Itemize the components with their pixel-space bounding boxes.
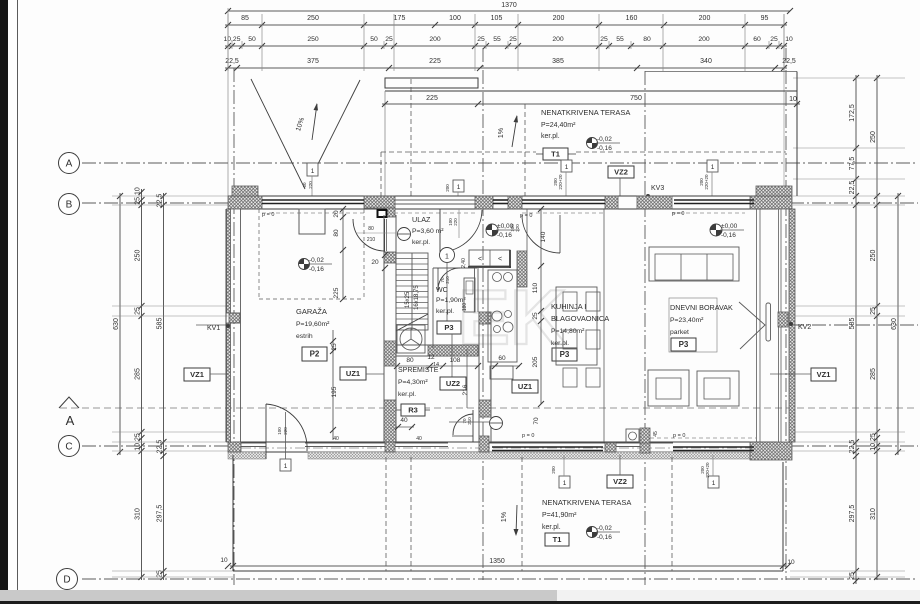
bottom wall pier 2 — [385, 436, 395, 452]
ridge marker box — [307, 163, 318, 176]
svg-text:parket: parket — [670, 329, 689, 336]
svg-text:200: 200 — [445, 184, 450, 192]
small window top — [493, 199, 508, 201]
vertical grid line 4 — [785, 48, 787, 580]
overall dimension 1370 — [228, 10, 790, 12]
left lower chain 310 — [141, 448, 143, 580]
grid line A horizontal — [82, 162, 918, 164]
axis line KV horizontal left — [196, 324, 228, 326]
svg-text:77,5: 77,5 — [849, 157, 856, 171]
svg-text:±0,00: ±0,00 — [721, 223, 738, 230]
wall garage-hall — [383, 215, 385, 442]
kitchen door arc — [522, 215, 560, 253]
roof slope V line left — [251, 79, 305, 189]
top wall pier KV3 — [637, 196, 672, 209]
right extension lines — [793, 77, 905, 79]
canopy rectangle — [385, 78, 478, 88]
svg-text:-0,02: -0,02 — [597, 136, 612, 143]
lower terrace elevation marker — [587, 527, 598, 538]
svg-text:285: 285 — [870, 368, 877, 380]
svg-text:GARAŽA: GARAŽA — [296, 307, 327, 316]
vertical grid line 2 — [482, 48, 484, 580]
entry window top — [394, 199, 475, 201]
dashed projection line x411 — [410, 79, 412, 196]
svg-text:220: 220 — [283, 427, 288, 435]
bottom marker leader — [285, 412, 287, 459]
bottom wall pier corner left — [228, 442, 241, 452]
svg-text:55: 55 — [616, 36, 624, 43]
svg-text:205: 205 — [532, 356, 539, 367]
svg-text:P=3,60 m²: P=3,60 m² — [412, 228, 444, 235]
svg-text:ker.pl.: ker.pl. — [412, 239, 430, 246]
svg-text:A: A — [66, 413, 75, 428]
svg-text:A: A — [66, 159, 73, 170]
right wall window KV2 — [778, 312, 788, 327]
svg-text:1: 1 — [311, 168, 315, 175]
svg-text:50: 50 — [370, 36, 378, 43]
grid line D horizontal — [82, 578, 918, 580]
roof slope arrow 10% — [312, 104, 317, 140]
svg-text:ker.pl.: ker.pl. — [436, 308, 454, 315]
svg-text:110: 110 — [532, 282, 539, 293]
svg-text:310: 310 — [870, 508, 877, 520]
svg-text:P=19,60m²: P=19,60m² — [296, 321, 330, 328]
svg-text:385: 385 — [552, 58, 564, 65]
top dimension row 2 — [225, 45, 787, 47]
svg-text:<: < — [478, 256, 482, 263]
window marker above entry — [453, 180, 464, 192]
svg-text:25: 25 — [477, 36, 485, 43]
lintel dashed lines — [262, 212, 364, 214]
svg-text:210: 210 — [367, 237, 376, 243]
svg-text:60: 60 — [302, 182, 307, 188]
svg-text:25: 25 — [385, 36, 393, 43]
svg-text:25: 25 — [870, 307, 877, 315]
wall ULAZ-east — [526, 209, 528, 251]
svg-text:225: 225 — [429, 58, 441, 65]
sliding door leaf — [766, 303, 771, 341]
right lower chain 297,5 — [855, 453, 857, 584]
kitchen dim chain vertical — [540, 209, 542, 404]
svg-text:KV3: KV3 — [651, 185, 664, 192]
svg-text:172,5: 172,5 — [849, 104, 856, 122]
svg-text:T1: T1 — [553, 535, 562, 544]
kitchen counter — [488, 270, 517, 362]
grid bubble D — [57, 569, 78, 590]
WC room walls — [433, 267, 477, 269]
grid bubble A — [59, 153, 80, 174]
svg-text:R3: R3 — [408, 406, 418, 415]
svg-text:14: 14 — [433, 362, 439, 368]
svg-text:200: 200 — [699, 15, 711, 22]
grid line C horizontal — [82, 445, 233, 447]
entry symbol circle — [398, 228, 411, 241]
upper terrace elevation marker — [587, 138, 598, 149]
svg-text:630: 630 — [891, 318, 898, 330]
svg-text:80: 80 — [406, 357, 414, 364]
svg-text:55: 55 — [493, 36, 501, 43]
bottom exterior hatch band — [228, 452, 266, 459]
svg-text:250: 250 — [135, 250, 142, 262]
svg-text:250: 250 — [870, 250, 877, 262]
svg-text:15x25: 15x25 — [405, 291, 411, 308]
window bottom middle glazing — [492, 446, 603, 448]
kitchen hob — [492, 311, 502, 321]
svg-text:297,5: 297,5 — [849, 505, 856, 523]
roof overhang left edge — [384, 91, 386, 196]
svg-text:200: 200 — [553, 15, 565, 22]
staircase cut line — [396, 314, 428, 331]
VZ2 label top — [608, 166, 634, 178]
left dim chain 250/25/285 — [141, 189, 143, 449]
armchair 1 — [648, 370, 689, 406]
svg-text:216: 216 — [462, 384, 469, 395]
svg-text:50: 50 — [248, 36, 256, 43]
corridor door arc — [472, 410, 474, 442]
svg-text:25: 25 — [849, 572, 856, 580]
svg-text:1: 1 — [563, 480, 567, 487]
left lower chain 297,5 — [163, 453, 165, 580]
sofa — [649, 247, 739, 281]
svg-text:-0,16: -0,16 — [309, 266, 324, 273]
garage dashed ceiling outline — [258, 209, 260, 299]
svg-text:25: 25 — [770, 36, 778, 43]
svg-text:-0,02: -0,02 — [309, 257, 324, 264]
svg-text:-0,16: -0,16 — [597, 145, 612, 152]
svg-text:20: 20 — [371, 259, 379, 266]
svg-text:340: 340 — [700, 58, 712, 65]
svg-text:20: 20 — [333, 210, 340, 218]
axis line KV horizontal right — [790, 324, 918, 326]
washing machine — [397, 325, 425, 353]
label VZ1 right — [811, 368, 836, 381]
svg-text:40: 40 — [416, 436, 422, 442]
svg-text:VZ1: VZ1 — [817, 370, 831, 379]
wardrobe — [469, 250, 510, 266]
svg-text:-0,16: -0,16 — [721, 232, 736, 239]
window marker kitchen top — [561, 160, 572, 172]
svg-text:22,5: 22,5 — [849, 181, 856, 195]
spremiste floor label R3 — [396, 409, 401, 411]
svg-text:P2: P2 — [310, 350, 320, 359]
svg-text:25: 25 — [331, 343, 338, 351]
right lower chain 310 — [876, 448, 878, 580]
svg-text:KV2: KV2 — [798, 324, 811, 331]
svg-text:220: 220 — [453, 218, 458, 226]
svg-text:200: 200 — [552, 36, 564, 43]
svg-text:12: 12 — [427, 354, 435, 361]
svg-text:40: 40 — [333, 436, 339, 442]
top wall pier corner left — [228, 196, 262, 209]
svg-text:160: 160 — [626, 15, 638, 22]
upper terrace floor label T1 — [536, 153, 543, 155]
svg-text:p = 0: p = 0 — [672, 211, 684, 217]
bottom wall pier 3 — [479, 436, 489, 452]
svg-text:200: 200 — [551, 466, 556, 474]
svg-text:250: 250 — [870, 131, 877, 143]
right exterior wall hatch strip — [789, 209, 795, 442]
dining table — [556, 287, 597, 365]
watermark letters — [458, 273, 566, 361]
kitchen base fixture — [490, 366, 513, 379]
section line A-A horizontal — [60, 407, 918, 409]
svg-text:P=41,90m²: P=41,90m² — [542, 512, 577, 519]
svg-text:60: 60 — [498, 355, 506, 362]
garage window top — [262, 199, 364, 201]
svg-text:P3: P3 — [560, 350, 570, 359]
left wall window KV1 — [229, 313, 240, 323]
left exterior wall — [225, 209, 227, 442]
svg-text:VZ2: VZ2 — [613, 477, 627, 486]
svg-text:108: 108 — [450, 357, 461, 364]
svg-text:KV1: KV1 — [207, 325, 220, 332]
svg-text:B: B — [66, 200, 73, 211]
VZ2 label bottom — [607, 475, 633, 488]
svg-text:25: 25 — [532, 312, 539, 320]
top wall pier 5 — [605, 196, 618, 209]
svg-text:1%: 1% — [498, 128, 505, 138]
terrace dashed boundary — [381, 151, 536, 153]
svg-text:-0,02: -0,02 — [597, 525, 612, 532]
svg-text:250: 250 — [307, 36, 319, 43]
label VZ1 left — [184, 368, 210, 381]
svg-text:220+20: 220+20 — [704, 174, 709, 190]
svg-text:175: 175 — [394, 15, 406, 22]
svg-text:630: 630 — [113, 318, 120, 330]
garage bottom door — [265, 404, 267, 459]
svg-text:220: 220 — [515, 224, 520, 232]
dashed projection line x525 — [524, 104, 526, 196]
window marker garage bottom — [280, 459, 291, 471]
svg-text:750: 750 — [630, 95, 642, 102]
garage elevation marker — [299, 259, 310, 270]
top extension lines — [227, 14, 229, 71]
svg-text:585: 585 — [157, 318, 164, 330]
left dim chain 630 — [119, 193, 121, 455]
svg-text:140: 140 — [540, 231, 547, 242]
svg-text:195: 195 — [331, 386, 338, 397]
svg-text:C: C — [65, 442, 72, 453]
svg-text:310: 310 — [135, 508, 142, 520]
kitchen sink — [493, 273, 502, 282]
top dimension row 3 — [225, 67, 787, 69]
top wall pier 2 — [364, 196, 395, 208]
svg-text:10: 10 — [787, 559, 795, 566]
entry door arc — [439, 209, 441, 252]
left extension lines — [112, 195, 228, 197]
label UZ1 left — [340, 367, 366, 380]
bottom wall pier 5 — [640, 428, 650, 453]
svg-text:2,40: 2,40 — [461, 258, 467, 268]
living window bottom — [673, 446, 754, 448]
top dimension row 1 — [225, 24, 787, 26]
svg-text:40: 40 — [400, 417, 408, 424]
svg-text:p = 0: p = 0 — [262, 212, 274, 218]
svg-text:70: 70 — [533, 417, 540, 425]
svg-text:ker.pl.: ker.pl. — [398, 391, 416, 398]
terrace dim 225/750 — [382, 103, 800, 105]
svg-text:225: 225 — [333, 287, 340, 298]
svg-text:<: < — [498, 256, 502, 263]
svg-text:-0,16: -0,16 — [597, 534, 612, 541]
living floor label P3 — [671, 338, 696, 351]
svg-text:210: 210 — [445, 276, 450, 284]
svg-text:1370: 1370 — [501, 2, 517, 9]
svg-text:100: 100 — [277, 427, 282, 435]
svg-text:210: 210 — [467, 417, 472, 425]
roof slope V line right — [318, 80, 360, 164]
svg-text:10: 10 — [785, 36, 793, 43]
svg-text:1350: 1350 — [489, 558, 505, 565]
svg-text:ker.pl.: ker.pl. — [551, 340, 569, 347]
garage floor label P2 — [302, 347, 327, 361]
roof upper edge line — [645, 71, 797, 73]
terrace slope arrow 1% — [512, 116, 517, 147]
svg-text:95: 95 — [761, 15, 769, 22]
armchair 2 — [697, 371, 739, 406]
wall entry-kitchen pier — [517, 251, 527, 287]
svg-text:WC: WC — [436, 287, 448, 294]
svg-text:D: D — [63, 575, 70, 586]
left black border strip — [0, 0, 8, 592]
grid bubble B — [59, 194, 80, 215]
middle bottom wall lines — [395, 442, 448, 444]
svg-text:estrih: estrih — [296, 333, 313, 340]
svg-text:T1: T1 — [551, 150, 560, 159]
flooring divider line — [603, 209, 605, 442]
svg-text:297,5: 297,5 — [157, 505, 164, 523]
svg-text:NENATKRIVENA TERASA: NENATKRIVENA TERASA — [542, 498, 631, 507]
svg-text:1: 1 — [284, 463, 288, 470]
svg-text:80: 80 — [368, 226, 374, 232]
top wall pier 4 — [508, 196, 522, 209]
svg-text:80: 80 — [333, 229, 340, 237]
svg-text:-0,16: -0,16 — [497, 232, 512, 239]
section marker A left — [59, 397, 79, 408]
svg-text:BLAGOVAONICA: BLAGOVAONICA — [551, 314, 609, 323]
bottom gray band — [0, 590, 557, 601]
garage dim chain — [342, 209, 344, 299]
bottom exterior wall — [233, 451, 790, 453]
lower terrace bottom edge — [233, 570, 783, 572]
projection dashed lines below building — [385, 457, 387, 571]
left dim chain 585 — [163, 193, 165, 454]
svg-text:85: 85 — [241, 15, 249, 22]
kitchen floor label P3 — [552, 348, 577, 361]
right dim chain 172,5/77,5 — [855, 75, 857, 454]
svg-text:1: 1 — [445, 254, 449, 261]
wall corridor-kitchen vertical — [478, 312, 480, 442]
svg-text:P=4,30m²: P=4,30m² — [398, 379, 428, 386]
terrace door direction triangle — [739, 302, 765, 349]
grid line B horizontal — [82, 202, 228, 204]
svg-text:VZ2: VZ2 — [614, 168, 628, 177]
svg-text:UZ2: UZ2 — [446, 379, 460, 388]
lower terrace dim 1350 — [230, 565, 786, 567]
svg-text:22,5: 22,5 — [225, 58, 239, 65]
lower terrace right edge — [782, 462, 784, 571]
floor drain symbol — [449, 421, 489, 423]
top wall pier 3 — [475, 196, 493, 209]
right glass facade outer pair — [778, 209, 780, 442]
svg-text:375: 375 — [307, 58, 319, 65]
svg-text:100: 100 — [449, 15, 461, 22]
window marker living top — [707, 160, 718, 172]
vertical grid line 3 — [644, 71, 646, 585]
svg-text:80: 80 — [643, 36, 651, 43]
svg-text:180: 180 — [462, 303, 468, 312]
svg-text:ker.pl.: ker.pl. — [542, 524, 561, 531]
wall hall-spremiste horizontal — [396, 344, 478, 346]
window marker corridor bottom — [559, 476, 570, 488]
svg-text:1: 1 — [565, 164, 569, 171]
svg-text:P3: P3 — [444, 323, 453, 332]
right dim chain 630 — [897, 193, 899, 455]
lower terrace slope arrow 1% — [516, 505, 517, 534]
svg-text:285: 285 — [135, 368, 142, 380]
svg-text:DNEVNI BORAVAK: DNEVNI BORAVAK — [670, 303, 733, 312]
svg-text:1: 1 — [457, 184, 461, 191]
label UZ2 — [440, 377, 466, 390]
top wall pier corner right — [750, 196, 792, 209]
bottom wall axis dashes — [241, 447, 777, 449]
label UZ1 right — [512, 380, 538, 393]
svg-text:1: 1 — [711, 164, 715, 171]
kitchen window top — [522, 199, 605, 201]
svg-text:NENATKRIVENA TERASA: NENATKRIVENA TERASA — [541, 108, 630, 117]
svg-text:±0,00: ±0,00 — [497, 223, 514, 230]
svg-text:225: 225 — [426, 95, 438, 102]
dining chairs — [563, 292, 577, 311]
staircase — [396, 253, 428, 330]
window marker living bottom — [708, 476, 719, 488]
svg-text:P=23,40m²: P=23,40m² — [670, 317, 704, 324]
svg-text:VZ1: VZ1 — [190, 370, 204, 379]
svg-text:250: 250 — [307, 15, 319, 22]
garage bottom wall lines — [241, 442, 266, 444]
svg-text:1%: 1% — [501, 512, 508, 522]
garage skylight square — [299, 209, 325, 234]
svg-text:p = 0: p = 0 — [522, 433, 534, 439]
lower terrace left edge — [232, 455, 234, 571]
svg-text:105: 105 — [491, 15, 503, 22]
bottom dark bar — [0, 601, 920, 604]
grid bubble C — [59, 436, 80, 457]
svg-text:ker.pl.: ker.pl. — [541, 133, 560, 140]
svg-text:P=24,40m²: P=24,40m² — [541, 122, 576, 129]
door garage-hall — [384, 219, 386, 251]
svg-text:ULAZ: ULAZ — [412, 215, 431, 224]
svg-text:220+20: 220+20 — [558, 174, 563, 190]
svg-text:200: 200 — [698, 36, 710, 43]
svg-text:60: 60 — [753, 36, 761, 43]
svg-text:220: 220 — [308, 181, 313, 189]
living entry elevation marker — [710, 224, 722, 236]
roof overhang line top — [385, 90, 797, 92]
living room rug outline — [669, 298, 717, 352]
WC toilet — [464, 278, 475, 312]
lower terrace floor label T1 — [545, 533, 569, 546]
svg-text:P3: P3 — [679, 340, 689, 349]
svg-text:UZ1: UZ1 — [518, 382, 532, 391]
svg-text:45: 45 — [653, 431, 659, 437]
WC door — [437, 268, 439, 290]
top exterior wall — [228, 195, 790, 197]
bottom wall pier 4 — [605, 443, 616, 452]
svg-text:25: 25 — [509, 36, 517, 43]
svg-text:220+20: 220+20 — [705, 462, 710, 478]
entry elevation marker — [486, 224, 498, 236]
